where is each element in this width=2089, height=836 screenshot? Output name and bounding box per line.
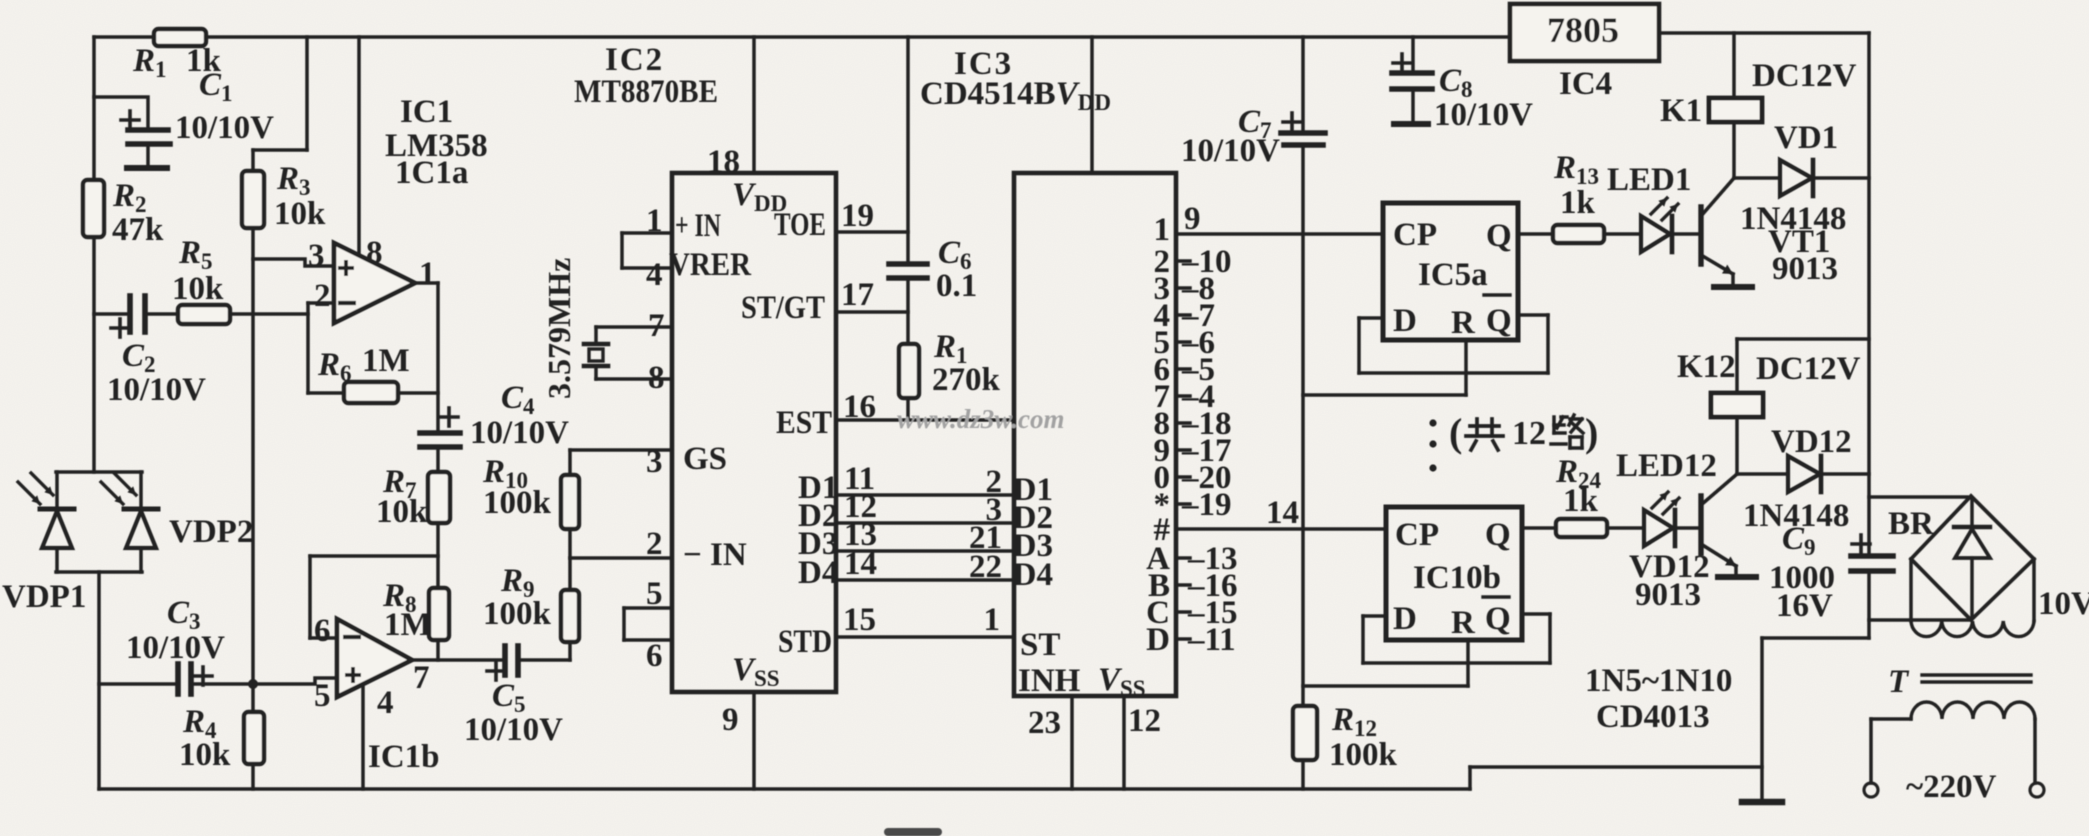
svg-text:D4: D4 [1013,557,1053,593]
svg-text:IC1: IC1 [400,94,453,130]
svg-text:270k: 270k [932,362,1001,398]
svg-text:− IN: − IN [683,537,747,573]
svg-text:–11: –11 [1187,622,1236,658]
svg-text:LED12: LED12 [1616,448,1717,484]
svg-text:IC4: IC4 [1559,66,1612,102]
svg-text:VRER: VRER [669,247,752,283]
svg-text:10/10V: 10/10V [107,372,206,408]
svg-text:K1: K1 [1660,93,1702,129]
svg-text:10/10V: 10/10V [175,110,274,146]
svg-text:100k: 100k [1329,737,1398,773]
svg-text:VDP1: VDP1 [2,579,86,615]
svg-text:8: 8 [366,235,383,271]
svg-text:3.579MHz: 3.579MHz [541,258,577,399]
svg-text:IC5a: IC5a [1418,257,1488,293]
svg-text:Q: Q [1486,218,1512,254]
svg-text:DC12V: DC12V [1752,58,1857,94]
svg-text:7805: 7805 [1547,10,1619,50]
svg-text:ST: ST [1020,627,1060,663]
svg-text:www.dz3w.com: www.dz3w.com [897,404,1065,434]
svg-text:15: 15 [843,602,876,638]
svg-text:18: 18 [707,144,740,180]
svg-text:IC10b: IC10b [1413,560,1501,596]
svg-text:9013: 9013 [1635,577,1701,613]
svg-text:D: D [1393,303,1417,339]
svg-text:Q: Q [1485,517,1511,553]
svg-text:(: ( [1449,410,1462,455]
svg-text:22: 22 [969,549,1002,585]
svg-text:19: 19 [841,198,874,234]
svg-text:IC2: IC2 [605,42,664,78]
svg-text:23: 23 [1028,705,1061,741]
svg-text:14: 14 [844,546,877,582]
svg-text:VD1: VD1 [1774,120,1838,156]
svg-text:BR: BR [1888,506,1935,542]
svg-text:10k: 10k [179,737,231,773]
svg-text:1M: 1M [362,343,410,379]
svg-text:MT8870BE: MT8870BE [574,74,718,110]
svg-text:17: 17 [841,277,874,313]
svg-text:9: 9 [1184,201,1201,237]
svg-text:6: 6 [646,638,663,674]
svg-text:R: R [1451,605,1476,641]
svg-text:D4: D4 [798,555,838,591]
svg-text:14: 14 [1266,495,1299,531]
svg-text:2: 2 [646,526,663,562]
svg-text:VD12: VD12 [1771,424,1852,460]
svg-text:CP: CP [1393,217,1437,253]
svg-text:R: R [1451,305,1476,341]
svg-text:1C1a: 1C1a [395,155,468,191]
svg-text:10/10V: 10/10V [470,415,569,451]
svg-text:7: 7 [648,308,665,344]
svg-text:9: 9 [722,702,739,738]
svg-text:+ IN: + IN [675,208,721,244]
svg-text:EST: EST [776,405,832,441]
svg-text:3: 3 [646,444,663,480]
svg-text:10k: 10k [376,494,428,530]
svg-text:1k: 1k [1560,185,1596,221]
svg-text:T: T [1888,664,1910,700]
svg-text:12: 12 [1128,703,1161,739]
svg-text:DC12V: DC12V [1756,351,1861,387]
svg-text:12: 12 [1512,415,1546,452]
svg-text:INH: INH [1018,663,1081,699]
svg-text:7: 7 [413,660,430,696]
svg-text:10V: 10V [2038,586,2089,622]
svg-text:ST/GT: ST/GT [741,290,825,326]
svg-text:100k: 100k [483,596,552,632]
svg-text:10/10V: 10/10V [464,712,563,748]
svg-text:): ) [1585,410,1598,455]
svg-text:2: 2 [314,278,331,314]
svg-text:1: 1 [984,602,1001,638]
svg-text:5: 5 [314,678,331,714]
svg-text:K12: K12 [1677,349,1736,385]
svg-text:8: 8 [648,360,665,396]
svg-text:10/10V: 10/10V [1434,97,1533,133]
svg-text:10k: 10k [172,271,224,307]
svg-text:10k: 10k [274,196,326,232]
svg-text:6: 6 [314,613,331,649]
svg-text:3: 3 [308,238,325,274]
svg-text:10/10V: 10/10V [1181,133,1280,169]
svg-text:1M: 1M [384,607,432,643]
svg-text:4: 4 [646,257,663,293]
svg-text:Q: Q [1485,601,1511,637]
svg-text:5: 5 [646,576,663,612]
svg-text:D: D [1393,601,1417,637]
svg-text:0.1: 0.1 [936,268,977,304]
svg-text:LED1: LED1 [1607,162,1691,198]
svg-text:–19: –19 [1181,487,1232,523]
svg-text:4: 4 [377,685,394,721]
svg-text:GS: GS [683,441,727,477]
svg-text:1k: 1k [1563,483,1599,519]
svg-text:47k: 47k [112,212,164,248]
svg-text:Q: Q [1486,303,1512,339]
svg-text:D: D [1146,622,1170,658]
svg-text:16V: 16V [1776,588,1833,624]
svg-text:IC1b: IC1b [368,739,440,775]
svg-text:16: 16 [843,389,876,425]
svg-text:STD: STD [778,624,832,660]
svg-text:1N5~1N10: 1N5~1N10 [1585,663,1732,699]
svg-text:10/10V: 10/10V [126,630,225,666]
svg-text:1: 1 [646,203,663,239]
svg-text:CP: CP [1395,517,1439,553]
svg-text:VDP2: VDP2 [169,514,253,550]
svg-text:1: 1 [1154,212,1171,248]
svg-text:1: 1 [419,256,436,292]
svg-text:~220V: ~220V [1906,769,1997,805]
svg-text:CD4013: CD4013 [1596,699,1710,735]
svg-text:9013: 9013 [1772,251,1838,287]
svg-text:TOE: TOE [774,207,826,243]
svg-text:100k: 100k [483,485,552,521]
